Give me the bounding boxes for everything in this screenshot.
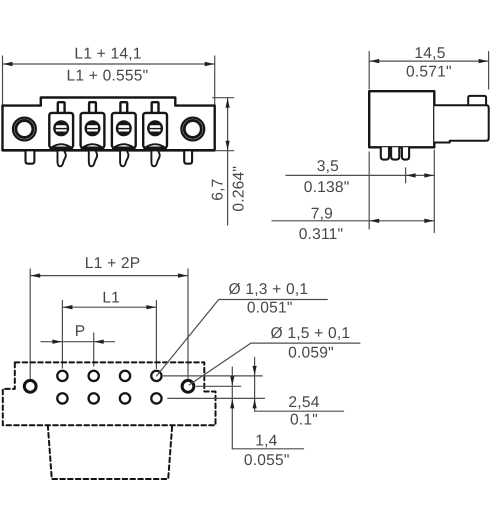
dimension 6,7 extension line top bbox=[213, 97, 234, 99]
svg-text:0.055": 0.055" bbox=[244, 452, 290, 469]
svg-text:0.264": 0.264" bbox=[231, 166, 248, 212]
dimension 1,4 arrow up bbox=[230, 399, 234, 409]
dimension 3,5 arrow right bbox=[424, 173, 434, 177]
dimension 7,9 line bbox=[272, 220, 434, 222]
flange row extension line bbox=[197, 385, 241, 387]
svg-text:L1 + 2P: L1 + 2P bbox=[85, 255, 141, 272]
dimension 6,7 arrow up bbox=[226, 98, 230, 108]
svg-text:0.1": 0.1" bbox=[290, 412, 318, 429]
dimension 14,5 line bbox=[369, 60, 488, 62]
dimension 6,7 arrow down bbox=[226, 141, 230, 151]
pin hole row1 col4 bbox=[151, 371, 161, 381]
dimension 2,54 arrow up bbox=[253, 399, 257, 409]
side view top latch tab bbox=[468, 96, 486, 105]
dimension L1+2P arrow left bbox=[31, 273, 41, 277]
dimension 7,9 arrow left bbox=[370, 219, 380, 223]
dimension L1 extension line right bbox=[155, 301, 157, 369]
dimension L1+14,1 line bbox=[3, 63, 215, 65]
pin hole row1 col2 bbox=[89, 371, 99, 381]
svg-text:7,9: 7,9 bbox=[311, 205, 333, 222]
dimension 3,5 extension line (pin center) bbox=[405, 168, 407, 183]
dimension 3,5 / 7,9 extension line (body left) bbox=[368, 152, 370, 229]
svg-text:L1 + 14,1: L1 + 14,1 bbox=[74, 46, 141, 63]
side view main body bbox=[369, 91, 434, 147]
svg-text:P: P bbox=[75, 323, 86, 340]
dimension L1+14,1 arrow right bbox=[205, 62, 215, 66]
dimension 14,5 extension line left bbox=[368, 52, 370, 90]
leader line hole dia 1,3 bbox=[157, 300, 328, 376]
svg-text:14,5: 14,5 bbox=[414, 45, 445, 62]
svg-text:L1: L1 bbox=[102, 290, 120, 307]
dimension 3,5 arrow left bbox=[406, 173, 416, 177]
dimension P arrow left (outside) bbox=[52, 340, 62, 344]
pin hole row2 col3 bbox=[120, 393, 130, 403]
dimension P arrow right (outside) bbox=[94, 340, 104, 344]
footprint dashed outline bbox=[3, 362, 216, 425]
front view body outline bbox=[3, 98, 215, 151]
side view collar bbox=[434, 105, 488, 142]
footprint dashed trapezoid cutout bbox=[48, 425, 172, 479]
screw unit 2 bbox=[81, 102, 105, 148]
svg-text:6,7: 6,7 bbox=[209, 178, 226, 200]
dimension 14,5 arrow left bbox=[370, 59, 380, 63]
screw unit 3 bbox=[112, 102, 136, 148]
front view mounting pin left bbox=[26, 150, 35, 164]
dimension L1+2P line bbox=[30, 275, 188, 277]
dimension 6,7 extension line bottom bbox=[215, 150, 234, 152]
dimension 1,4 leader underline bbox=[232, 448, 303, 450]
solder hook pin 2 bbox=[89, 148, 97, 166]
dimension 14,5 extension line right bbox=[488, 52, 490, 90]
svg-text:0.571": 0.571" bbox=[406, 64, 452, 81]
pin hole row1 col3 bbox=[120, 371, 130, 381]
dimension L1+2P extension line left bbox=[29, 269, 31, 379]
dimension 14,5 arrow right bbox=[479, 59, 489, 63]
body shelf band under screw units bbox=[49, 147, 73, 150]
dimension L1 arrow left bbox=[63, 305, 73, 309]
svg-text:L1 + 0.555": L1 + 0.555" bbox=[66, 67, 148, 84]
svg-text:Ø 1,3 + 0,1: Ø 1,3 + 0,1 bbox=[229, 281, 309, 298]
front view mounting pin right bbox=[184, 150, 192, 164]
dimension L1 line bbox=[62, 306, 156, 308]
screw unit 4 bbox=[143, 102, 167, 148]
dimension L1 arrow right bbox=[146, 305, 156, 309]
row1 extension line bbox=[164, 375, 263, 377]
leader line hole dia 1,5 bbox=[189, 343, 360, 385]
dimension 2,54 leader underline bbox=[255, 410, 344, 412]
svg-text:0.138": 0.138" bbox=[304, 179, 350, 196]
dimension 1,4 arrow down bbox=[230, 376, 234, 386]
svg-text:0.059": 0.059" bbox=[288, 345, 334, 362]
row2 extension line bbox=[168, 397, 265, 399]
dimension P line bbox=[41, 341, 115, 343]
dimension L1 extension line left bbox=[61, 301, 63, 369]
front view body bottom edge bbox=[3, 149, 215, 151]
solder hook pin 1 bbox=[58, 148, 66, 166]
solder hook pin 3 bbox=[120, 148, 128, 166]
pin hole row2 col4 bbox=[151, 393, 161, 403]
dimension 2,54 arrow down bbox=[253, 366, 257, 376]
dimension L1+2P arrow right bbox=[178, 273, 188, 277]
pin hole row1 col1 bbox=[57, 371, 67, 381]
side view pin 3 bbox=[402, 147, 409, 159]
svg-text:3,5: 3,5 bbox=[317, 158, 339, 175]
side view pin 2 bbox=[391, 147, 399, 159]
flange hole right bbox=[182, 380, 194, 392]
dimension 7,9 arrow right bbox=[424, 219, 434, 223]
pin hole row2 col2 bbox=[89, 393, 99, 403]
side view pin 1 bbox=[381, 147, 389, 159]
dimension 3,5 line bbox=[286, 174, 434, 176]
solder hook pin 4 bbox=[151, 148, 159, 166]
front view flange ring left bbox=[13, 118, 36, 141]
pin hole row2 col1 bbox=[57, 393, 67, 403]
dimension 6,7 vertical line bbox=[227, 98, 229, 225]
dimension P extension line right bbox=[93, 333, 95, 366]
dimension L1+14,1 extension line right bbox=[214, 56, 216, 106]
screw unit 1 bbox=[49, 102, 73, 148]
dimension 2,54 vertical line bbox=[254, 358, 256, 412]
dimension 3,5 / 7,9 extension line (body right) bbox=[433, 150, 435, 233]
dimension L1+14,1 extension line left bbox=[2, 56, 4, 106]
svg-text:1,4: 1,4 bbox=[255, 432, 277, 449]
svg-text:0.311": 0.311" bbox=[299, 226, 344, 243]
svg-text:Ø 1,5 + 0,1: Ø 1,5 + 0,1 bbox=[271, 325, 351, 342]
svg-text:2,54: 2,54 bbox=[288, 394, 319, 411]
svg-text:0.051": 0.051" bbox=[247, 300, 293, 317]
flange hole left bbox=[24, 380, 36, 392]
dimension L1+2P extension line right bbox=[187, 269, 189, 378]
dimension 1,4 vertical line bbox=[231, 367, 233, 449]
front view flange ring right bbox=[181, 118, 204, 141]
dimension L1+14,1 arrow left bbox=[3, 62, 13, 66]
